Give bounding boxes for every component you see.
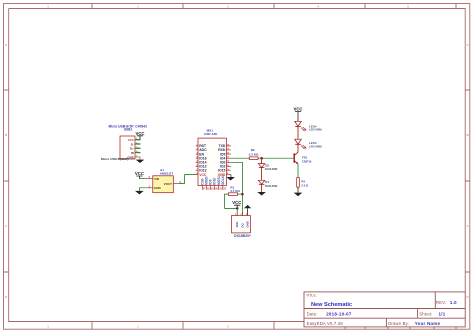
- svg-text:Drawn By:: Drawn By:: [388, 321, 409, 326]
- svg-text:1N4148W: 1N4148W: [265, 184, 278, 188]
- svg-text:C: C: [467, 224, 469, 228]
- wire MX1 IO0 down to DS18B20 DQ: [231, 162, 243, 215]
- USB1 pin 2 D-: [131, 142, 141, 146]
- svg-text:VCC: VCC: [135, 131, 144, 136]
- svg-text:B: B: [5, 133, 7, 137]
- wire D2 to D1: [261, 168, 263, 181]
- USB1 pin 3 D+: [130, 147, 140, 151]
- svg-text:TR1: TR1: [302, 156, 308, 160]
- svg-text:LED-5MM: LED-5MM: [309, 128, 322, 132]
- svg-text:Sheet:: Sheet:: [419, 311, 432, 316]
- wire VCC node down to DS18B20 VDD pin: [236, 208, 238, 215]
- svg-text:REV:: REV:: [436, 300, 446, 305]
- DS18B20 pin 1 VDD: [235, 212, 239, 228]
- svg-text:VCC: VCC: [135, 171, 144, 176]
- svg-text:USB1: USB1: [124, 128, 133, 132]
- sensor DS18B20+: [232, 216, 251, 239]
- svg-text:GND: GND: [127, 155, 133, 159]
- wire MX1 IO4 to R2: [231, 157, 249, 159]
- svg-text:VOUT: VOUT: [164, 182, 173, 186]
- regulator A1 AMS1117: [153, 168, 174, 193]
- svg-text:DS18B20+: DS18B20+: [234, 234, 251, 238]
- svg-text:New Schematic: New Schematic: [311, 302, 352, 308]
- svg-text:SCLK: SCLK: [221, 175, 225, 185]
- module MX1 ESP-12E: [198, 129, 227, 186]
- power flag VCC at DS18B20 VDD: [232, 200, 241, 208]
- wire R1 right to DQ line: [238, 193, 243, 195]
- svg-text:VCC: VCC: [199, 173, 207, 177]
- svg-text:1.0: 1.0: [450, 300, 457, 305]
- ground (up) at DS18B20 GND pin: [244, 205, 251, 216]
- svg-text:D: D: [467, 295, 469, 299]
- DS18B20 pin 2 DQ: [240, 212, 244, 228]
- diode D2 1N4148W: [258, 158, 277, 171]
- svg-text:VCC: VCC: [293, 107, 302, 112]
- power flag VCC at LED chain top: [293, 107, 302, 122]
- wire A1 GND to ground: [139, 188, 146, 191]
- svg-text:Your Name: Your Name: [415, 321, 441, 326]
- svg-text:VIN: VIN: [154, 177, 159, 181]
- svg-text:B: B: [467, 133, 469, 137]
- USB1 pin 1 VCC: [128, 138, 141, 142]
- ground at USB1 pin5: [136, 160, 145, 163]
- svg-text:Date:: Date:: [307, 311, 318, 316]
- svg-text:Micro USB-B(SMT): Micro USB-B(SMT): [101, 157, 129, 161]
- svg-text:LED-5MM: LED-5MM: [309, 144, 322, 148]
- wire VCC to VIN: [139, 178, 146, 180]
- ground at MX1 GND pin: [226, 175, 235, 181]
- wire A1 VOUT to ESP VCC: [178, 175, 195, 184]
- svg-text:4.7 KΩ: 4.7 KΩ: [230, 189, 240, 193]
- ground at A1 GND: [135, 191, 144, 195]
- junction node at VCC / VDD: [236, 207, 239, 210]
- svg-text:VDD: VDD: [235, 222, 239, 228]
- transistor TR1 CS8716 (NPN): [294, 152, 312, 164]
- wire LED3 cathode to TR1 collector: [297, 144, 299, 152]
- MX1 left pins RST ADC EN IO16 IO14 IO12 IO13 VCC: [196, 144, 207, 177]
- svg-text:A: A: [5, 43, 7, 47]
- diode D1 1N4148W: [258, 180, 277, 188]
- svg-text:3.3 KΩ: 3.3 KΩ: [249, 152, 259, 156]
- svg-text:C: C: [5, 224, 7, 228]
- power flag VCC at A1 VIN: [135, 171, 144, 179]
- resistor R2 3.3K: [249, 148, 259, 159]
- A1 pin 3 VIN: [146, 175, 159, 181]
- svg-text:A: A: [467, 43, 469, 47]
- svg-text:ESP-12E: ESP-12E: [204, 132, 217, 136]
- USB1 pin 5 GND: [127, 155, 140, 159]
- svg-text:1/1: 1/1: [439, 311, 446, 316]
- LED LED4 LED-5MM: [295, 121, 323, 131]
- svg-text:VCC: VCC: [232, 200, 241, 205]
- resistor R4 2.5 ohm: [297, 178, 309, 188]
- ground at D1 cathode: [257, 184, 266, 195]
- wire R2 to base node: [258, 157, 293, 159]
- DS18B20 pin 3 GND: [246, 212, 250, 228]
- svg-text:GND: GND: [154, 186, 162, 190]
- MX1 bottom pins CS0 MISO IO9 IO10 MOSI SCLK: [200, 175, 226, 190]
- resistor R1 4.7K: [228, 186, 240, 196]
- MX1 right pins TXD RXD IO5 IO4 IO0 IO2 IO15 GND: [218, 144, 231, 177]
- svg-text:2018-10-07: 2018-10-07: [326, 311, 352, 316]
- svg-text:GND: GND: [246, 221, 250, 227]
- A1 pin 1 GND: [146, 184, 161, 190]
- connector USB1 Micro USB-B 5P_C40942: [101, 124, 147, 161]
- svg-text:TITLE:: TITLE:: [306, 294, 317, 298]
- wire LED4 to LED3: [297, 126, 299, 139]
- svg-text:D: D: [5, 295, 7, 299]
- USB1 pin 4 ID: [131, 150, 141, 155]
- A1 pin 2 VOUT: [164, 180, 182, 186]
- svg-text:CS8716: CS8716: [302, 160, 312, 164]
- power flag VCC at USB1 pin1: [135, 131, 144, 140]
- svg-text:AMS1117: AMS1117: [160, 171, 174, 175]
- junction node at R1 right: [241, 193, 244, 196]
- junction node at R2 / D2: [260, 157, 263, 160]
- svg-text:2.5 Ω: 2.5 Ω: [302, 184, 309, 188]
- title block (decorative): [304, 292, 465, 327]
- svg-text:R4: R4: [302, 180, 306, 184]
- svg-text:1N4148W: 1N4148W: [265, 167, 278, 171]
- ground at R4: [294, 187, 303, 196]
- wire R1 left loop to VCC node: [225, 194, 238, 208]
- LED LED3 LED-5MM: [295, 139, 323, 149]
- wire TR1 emitter to R4: [297, 164, 299, 178]
- svg-text:EasyEDA V5.7.26: EasyEDA V5.7.26: [307, 321, 344, 326]
